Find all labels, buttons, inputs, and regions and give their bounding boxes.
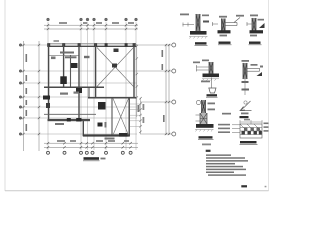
footing pad J-1 x63 y80 [60, 76, 67, 84]
detail E column hatched [243, 63, 247, 79]
detail J-3 title underline [249, 44, 262, 46]
bottom grid bubbles [47, 151, 133, 154]
wall footing section body [240, 124, 262, 138]
detail F title [199, 136, 213, 138]
detail J-3 wedge text [258, 19, 265, 21]
detail D top label 1 [193, 62, 200, 64]
wall vertical x83 lower [82, 119, 84, 136]
detail J-3 wedge [259, 23, 265, 28]
top dimension line 1 [44, 25, 138, 29]
diagonal X lower-right room [113, 99, 129, 136]
right dim ladder text 2 [143, 117, 145, 123]
plan annotation JL1 [60, 52, 74, 54]
wall band y119.5 [48, 119, 91, 121]
left dimension ticks [22, 44, 40, 135]
detail F below text [202, 144, 211, 146]
wall right lower x129 [128, 98, 130, 136]
notes heading [206, 150, 211, 152]
sheet border bottom [5, 190, 269, 192]
wall vertical x95.5 [95, 44, 97, 98]
beam line y55.3 [49, 54, 79, 56]
wall vertical x112 lower [111, 98, 113, 136]
detail D pile title underline [206, 96, 218, 98]
wall vertical x63.5 [63, 44, 65, 88]
detail F ground hatch [195, 130, 214, 132]
wall footing section title underline [240, 143, 258, 145]
wall footing section dim text [244, 119, 250, 121]
plan annotation text x107 y124 [105, 122, 107, 128]
detail J-3 left tick [247, 22, 252, 26]
detail E arm text [251, 64, 258, 66]
detail J-2 title underline [218, 44, 232, 46]
footing pad x79 y120 [76, 118, 81, 122]
grid horizontals (plan) [22, 45, 137, 134]
detail J-2 arm [225, 23, 237, 26]
detail D column hatched [209, 62, 213, 74]
sheet border right [268, 0, 270, 191]
footing pad left wall y97 [43, 96, 50, 100]
detail J-3 below text [250, 35, 257, 37]
right grid connector y102 [140, 101, 172, 103]
footing pad x69 y120 [67, 118, 71, 122]
wall footing section right text rows [264, 123, 269, 132]
bottom dimension text [57, 140, 129, 142]
plan annotation room text y92 b [74, 92, 80, 94]
detail E top label [242, 60, 250, 62]
bottom wall pad [119, 133, 128, 137]
footing pad x79 y90 [76, 88, 82, 93]
detail D text below [201, 81, 210, 83]
diagonal X lower-right room 2 [113, 99, 129, 136]
wall left x48.5 [48, 44, 50, 121]
detail J-2 left tick [212, 22, 218, 26]
plan annotation text y124 [55, 123, 64, 125]
plan annotation room text y93 [60, 93, 68, 95]
detail G bent bar [240, 101, 252, 111]
wall footing section title [240, 141, 257, 143]
detail J-1 title underline [195, 45, 208, 47]
plan annotation text below bottom wall [105, 138, 115, 140]
detail J-1 top label [180, 14, 189, 16]
detail G text [241, 113, 249, 115]
detail J-3 column hatched [252, 18, 256, 32]
detail G circle [244, 101, 247, 104]
detail F column hatched [202, 100, 206, 113]
detail J-3 top label [250, 15, 258, 17]
right dimension ticks [165, 44, 170, 135]
detail J-1 right text [202, 15, 209, 17]
detail J-2 below text [220, 35, 228, 37]
top dimension text [59, 22, 134, 24]
bottom right tiny mark [265, 186, 267, 188]
notes line 1 [206, 154, 231, 156]
detail F right text 1 [208, 103, 216, 105]
pad dark text J-2 upper right [114, 49, 119, 53]
detail D top label 2 [202, 60, 209, 62]
top grid bubbles [47, 18, 138, 21]
detail J-2 footing [218, 30, 231, 33]
detail J-1 right text 2 [203, 21, 209, 23]
notes line 2 [206, 157, 245, 159]
detail E arm [247, 68, 260, 71]
grid verticals (plan) [48, 22, 136, 150]
right dimension text [162, 50, 165, 122]
wall bottom y135.5 [83, 134, 130, 136]
bottom small mark [241, 185, 247, 187]
detail E small mark [260, 66, 263, 68]
tiny text above top wall [54, 40, 60, 42]
detail F top circle [196, 100, 200, 104]
detail D footing [203, 74, 220, 78]
right dim ladder line x140.5 [140, 98, 142, 134]
right grid connector y45 [137, 44, 172, 46]
notes line 4 [206, 163, 235, 165]
plan annotation JL2 [65, 56, 77, 58]
detail F brick zone [200, 113, 207, 124]
wall vertical x70.5 [70, 55, 72, 88]
notes line 3 [206, 160, 248, 162]
right inner dim line [136, 44, 138, 117]
plan title underline [83, 160, 100, 162]
detail D pile head [209, 88, 216, 93]
detail F footing [196, 124, 214, 128]
wall footing section left label 1 [222, 113, 231, 115]
bottom dimension ticks [47, 142, 132, 149]
detail E below text 1 [242, 81, 249, 83]
detail E below text 2 [242, 89, 250, 91]
wall horizontal y87 [44, 86, 104, 88]
detail D left marks [196, 65, 209, 72]
detail J-2 title [219, 42, 231, 44]
plan annotation x87 text [84, 56, 90, 58]
detail J-1 footing [190, 31, 207, 35]
notes line 5 [206, 166, 243, 168]
detail D pile title [207, 94, 218, 96]
right dim ladder stubs [130, 104, 142, 126]
left dimension text [26, 54, 28, 131]
detail J-2 top label [219, 16, 227, 18]
detail J-2 leader arrow [234, 18, 240, 23]
wall vertical x79 [78, 44, 80, 121]
right grid connector y134 [140, 133, 172, 135]
footing pad x74 y65 [71, 63, 78, 68]
wall footing section left label 2 [232, 125, 240, 133]
detail D ground hatch [202, 79, 219, 81]
footing pad big x102 y106 [98, 102, 106, 110]
notes line 7 [206, 172, 234, 174]
detail F left ticks [196, 115, 201, 121]
wall right upper x134 [133, 44, 135, 99]
footing pad x100 y124 [98, 123, 103, 127]
detail J-2 leader text [236, 15, 244, 17]
pad dark mid right [112, 64, 117, 68]
detail J-2 column hatched [222, 19, 226, 33]
left dimension lines [24, 41, 40, 151]
detail F right text 2 [208, 109, 216, 111]
detail J-1 ground hatch [189, 37, 208, 39]
wall top band [48, 44, 137, 47]
plan title scale 1:100 [101, 158, 106, 160]
detail G title [240, 116, 249, 118]
sheet border left [4, 0, 6, 191]
wall footing section top dim [240, 120, 263, 124]
detail J-3 title [249, 42, 261, 44]
detail E wedge [257, 72, 263, 76]
right inner dim ticks [136, 45, 138, 99]
right grid bubbles [172, 43, 176, 136]
detail J-1 title [195, 42, 207, 44]
wall vertical x89 [88, 87, 90, 98]
notes line 6 [206, 169, 246, 171]
wall footing section left text rows [218, 124, 230, 133]
diagonal X upper-right room [97, 48, 134, 87]
bottom dimension lines [44, 143, 138, 147]
top wall column pads [47, 43, 135, 47]
wall horizontal y97.5 [88, 97, 136, 99]
detail F title underline [198, 139, 214, 141]
plan annotation room1 text [51, 57, 56, 60]
top dimension ticks [47, 24, 137, 30]
right dim ladder ticks [139, 97, 141, 133]
plan annotation right dim text [138, 105, 140, 112]
footing pad left wall y105 [46, 103, 50, 108]
right dim ladder text [143, 104, 145, 110]
beam line y114.3 [44, 113, 96, 115]
detail J-1 column hatched [196, 14, 200, 31]
right grid connector y71 [137, 70, 172, 72]
left grid bubbles [19, 44, 22, 136]
detail J-3 footing [250, 30, 264, 33]
right dimension lines [166, 44, 169, 135]
notes line 8 [208, 174, 246, 176]
detail D pile stem [211, 78, 213, 89]
diagonal X upper-right room 2 [97, 48, 134, 87]
detail J-1 leader dim [183, 23, 195, 27]
plan title bar [84, 157, 100, 160]
detail E stem [244, 79, 246, 95]
